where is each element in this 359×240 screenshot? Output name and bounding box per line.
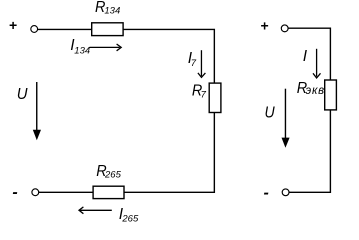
wire: R265 to bottom-left terminal: [39, 191, 94, 193]
svg-text:экв: экв: [306, 85, 326, 97]
terminal circle bottom-right circuit: [282, 189, 289, 196]
resistor Rekv: [325, 80, 337, 110]
wire: R7 bottom to corner and left to R265: [124, 113, 214, 193]
svg-text:265: 265: [104, 170, 122, 181]
svg-text:7: 7: [201, 90, 207, 101]
voltage arrow U left (points down, solid head): [33, 82, 41, 140]
resistor R134: [92, 23, 123, 36]
svg-text:7: 7: [191, 58, 197, 69]
wire: top terminal to corner and down to Rekv: [288, 28, 330, 80]
terminal circle top-right circuit: [281, 25, 288, 32]
svg-text:134: 134: [104, 6, 120, 17]
wire: R134 to corner and down to R7: [123, 29, 214, 82]
svg-text:U: U: [17, 86, 29, 104]
current arrow I265 (points left): [79, 207, 112, 214]
voltage arrow U right (points down, solid head): [282, 89, 290, 148]
terminal circle top-left: [31, 26, 38, 33]
svg-text:265: 265: [121, 214, 139, 225]
wire: Rekv bottom to corner and left to bottom terminal: [289, 110, 330, 192]
svg-text:-: -: [264, 184, 269, 201]
current arrow I right (points down): [313, 49, 321, 78]
label Rekv: [297, 79, 325, 97]
label I265: [119, 206, 139, 224]
resistor R7: [209, 83, 221, 112]
wire: top-left terminal to R134: [38, 28, 92, 30]
svg-text:134: 134: [74, 45, 90, 56]
resistor R265: [93, 186, 124, 198]
svg-text:U: U: [265, 104, 275, 122]
svg-text:+: +: [9, 17, 17, 33]
current arrow I7 (points down): [198, 50, 206, 77]
label R134: [95, 0, 120, 17]
svg-text:I: I: [303, 48, 308, 65]
terminal circle bottom-left: [32, 189, 39, 196]
label I7: [188, 50, 197, 69]
label R265: [96, 162, 121, 180]
svg-text:-: -: [12, 184, 17, 201]
label I134: [70, 37, 90, 56]
svg-text:+: +: [260, 17, 268, 33]
current arrow I134 (points right): [90, 44, 122, 51]
label R7: [192, 82, 207, 101]
